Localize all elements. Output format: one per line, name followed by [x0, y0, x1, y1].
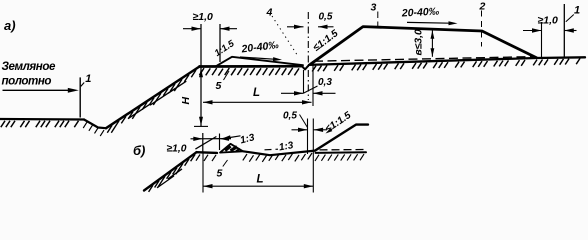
svg-text:≥1,0: ≥1,0: [193, 11, 214, 23]
svg-text:1:3: 1:3: [239, 132, 256, 146]
b) ground line right: [316, 151, 367, 154]
vertical 0.3 / L right extension: [312, 64, 314, 106]
svg-text:0,3: 0,3: [318, 77, 332, 88]
svg-text:Земляное: Земляное: [2, 60, 56, 73]
ditch profile: [84, 120, 106, 129]
node 1 left boundary stake: [79, 77, 81, 117]
svg-text:L: L: [253, 87, 260, 99]
svg-text:полотно: полотно: [2, 75, 52, 88]
svg-text:1: 1: [574, 5, 580, 17]
left ground hatching: [1, 121, 5, 127]
drainage slope arrow 20-40 promille (left): [240, 57, 274, 59]
svg-text:0,5: 0,5: [283, 111, 297, 122]
svg-text:≤1:1.5: ≤1:1.5: [311, 28, 341, 54]
svg-text:≥1,0: ≥1,0: [538, 15, 559, 27]
svg-text:в≤3,0: в≤3,0: [414, 29, 425, 55]
b) dashed original ground: [320, 149, 367, 151]
extension line right dim: [541, 22, 543, 58]
berm wedge 5 on crest: [216, 57, 303, 66]
svg-text:1:3: 1:3: [278, 140, 295, 153]
embankment 2 (cavalier) profile: [311, 27, 537, 65]
leader arrow from text to boundary line 1: [3, 89, 71, 91]
svg-text:5: 5: [217, 168, 223, 180]
svg-text:а): а): [4, 18, 16, 33]
b) wedge 5 (1:3 berm): [220, 144, 243, 153]
b) swale 1:3 surface: [243, 151, 315, 156]
extension line left (also H dim line): [200, 24, 202, 127]
V ditch at crest right end: [302, 65, 309, 70]
ground line right of axis: [309, 57, 585, 65]
svg-text:1: 1: [85, 73, 91, 85]
svg-text:3: 3: [371, 2, 377, 14]
slope 1 hatching: [107, 125, 112, 132]
b) L extension right: [312, 119, 314, 193]
b) dash before second 1:3: [265, 148, 279, 151]
svg-text:20-40‰: 20-40‰: [401, 6, 440, 20]
svg-text:20-40‰: 20-40‰: [240, 39, 280, 56]
extension line right of 1.0 dim: [219, 24, 221, 62]
svg-text:5: 5: [216, 80, 222, 92]
svg-text:≥1,0: ≥1,0: [167, 144, 187, 155]
svg-text:L: L: [257, 174, 264, 186]
right ground hatching: [312, 66, 316, 72]
b) upslope: [144, 152, 197, 190]
svg-text:H: H: [180, 97, 192, 105]
b) berm top: [197, 151, 218, 154]
vertical 0.3 left extension: [303, 70, 305, 94]
wire left ground line: [0, 118, 84, 121]
b) L extension left: [202, 152, 204, 192]
svg-text:0,5: 0,5: [319, 12, 333, 23]
crest hatching: [199, 68, 204, 75]
node 1 right boundary stake: [563, 4, 565, 58]
embankment 1 left slope: [106, 67, 200, 129]
b) 0.5 extension: [307, 119, 309, 155]
svg-text:1:1.5: 1:1.5: [213, 38, 237, 58]
svg-text:б): б): [133, 143, 145, 158]
b) upslope hatching: [149, 185, 153, 192]
b) steep slope and top: [315, 125, 368, 151]
embankment 1 crest line: [200, 65, 303, 68]
axis dash-dot vertical: [307, 12, 309, 100]
dashed original ground line: [314, 57, 535, 62]
svg-text:4: 4: [266, 7, 273, 19]
